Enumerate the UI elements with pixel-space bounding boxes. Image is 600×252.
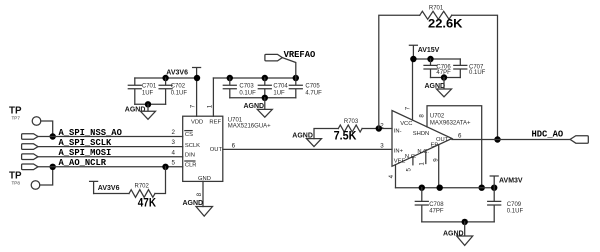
- svg-text:4: 4: [388, 174, 395, 178]
- svg-text:TP7: TP7: [12, 116, 21, 121]
- node junction TP7/NSS: [50, 133, 56, 139]
- svg-text:R702: R702: [135, 184, 150, 190]
- capacitor C701: [128, 78, 157, 104]
- node junction: [441, 74, 447, 80]
- port flag A_SPI_NSS_AO: [22, 134, 38, 140]
- node junction ground rail: [145, 101, 151, 107]
- svg-text:MAX5216GUA+: MAX5216GUA+: [228, 124, 271, 130]
- resistor R701 (feedback): [420, 6, 464, 31]
- svg-text:R703: R703: [344, 119, 359, 125]
- wire AV15V rail: [413, 58, 461, 60]
- svg-text:C705: C705: [305, 84, 320, 90]
- svg-text:VEE: VEE: [394, 159, 406, 165]
- wire C706/C707 ground rail: [431, 77, 461, 79]
- capacitor C706: [424, 59, 451, 78]
- svg-text:A_AO_NCLR: A_AO_NCLR: [59, 158, 107, 168]
- svg-text:8: 8: [418, 114, 425, 118]
- node junction ground rail C704: [262, 95, 268, 101]
- node junction C702/rail: [162, 75, 168, 81]
- pin 5 stub N.C.: [412, 157, 414, 165]
- power flag AV3V6 (upper): [166, 68, 200, 79]
- test point TP8: [9, 171, 40, 190]
- svg-text:U702: U702: [430, 114, 445, 120]
- ground AGND C706/C707: [425, 78, 452, 97]
- svg-text:VDD: VDD: [191, 120, 203, 126]
- capacitor C707: [454, 59, 486, 78]
- svg-text:U701: U701: [228, 118, 243, 124]
- wire feedback right: [452, 15, 498, 139]
- svg-text:7: 7: [190, 104, 197, 108]
- ground AGND C703-C705: [244, 98, 273, 117]
- svg-text:2: 2: [172, 129, 176, 136]
- test point TP7: [9, 106, 41, 126]
- wire AV3V6 to R702: [94, 193, 129, 195]
- wire VEE rail: [396, 187, 495, 189]
- capacitor C702: [159, 78, 187, 104]
- node junction C706: [427, 56, 433, 62]
- node junction output/feedback: [494, 136, 500, 142]
- svg-text:AV3V6: AV3V6: [98, 185, 120, 192]
- svg-text:0.1UF: 0.1UF: [507, 208, 524, 214]
- svg-text:C702: C702: [171, 84, 186, 90]
- wire TP7 to A_SPI_NSS_AO: [41, 121, 53, 137]
- port flag A_AO_NCLR: [22, 164, 38, 170]
- node junction NCLR/R702: [162, 164, 168, 170]
- wire feedback left: [379, 15, 420, 128]
- svg-text:VCC: VCC: [400, 121, 412, 127]
- svg-text:CS: CS: [185, 132, 193, 138]
- wire AGND to R703: [314, 129, 338, 139]
- svg-text:1: 1: [419, 162, 426, 166]
- pin 4 wire VEE: [395, 165, 397, 188]
- resistor R702: [129, 184, 157, 210]
- svg-text:C709: C709: [507, 202, 522, 208]
- svg-text:AV15V: AV15V: [418, 47, 440, 54]
- svg-text:AVM3V: AVM3V: [499, 178, 523, 185]
- wire R702 to NCLR: [155, 167, 166, 194]
- svg-text:AV3V6: AV3V6: [166, 70, 188, 77]
- svg-text:A_SPI_MOSI: A_SPI_MOSI: [59, 148, 112, 158]
- svg-text:47PF: 47PF: [429, 208, 444, 214]
- svg-text:6: 6: [458, 133, 462, 140]
- node junction AV3V6/VDD: [194, 75, 200, 81]
- svg-text:5: 5: [172, 159, 176, 166]
- node junction C703: [227, 75, 233, 81]
- port flag A_SPI_SCLK: [22, 144, 38, 150]
- svg-text:9: 9: [433, 158, 440, 162]
- op-amp U702 MAX9632ATA+: [392, 111, 452, 167]
- svg-text:C701: C701: [142, 84, 157, 90]
- svg-text:N.C.: N.C.: [405, 154, 417, 160]
- IC U701 MAX5216GUA+: [183, 116, 271, 182]
- wire C701/C702 ground rail: [135, 103, 166, 105]
- wire output to HDC_AO: [452, 139, 570, 141]
- port flag A_SPI_MOSI: [22, 154, 38, 160]
- svg-text:C703: C703: [239, 84, 254, 90]
- power flag AV3V6 (lower): [90, 181, 120, 193]
- svg-text:3: 3: [172, 139, 176, 146]
- svg-text:HDC_AO: HDC_AO: [532, 130, 564, 140]
- wire TP8 to A_AO_NCLR: [40, 167, 53, 185]
- svg-text:0.1UF: 0.1UF: [469, 70, 486, 76]
- svg-text:1UF: 1UF: [142, 90, 154, 96]
- svg-text:2: 2: [380, 123, 384, 130]
- pin 8 wire GND: [202, 181, 204, 206]
- svg-text:5: 5: [406, 168, 413, 172]
- pin 1 stub N.C.: [425, 151, 427, 164]
- label U702: [430, 114, 471, 127]
- node junction EP: [437, 185, 443, 191]
- svg-text:1: 1: [207, 104, 214, 108]
- wire VREFAO to rail: [282, 58, 296, 78]
- pin 1 wire REF: [212, 78, 214, 116]
- pin 7 wire VDD: [196, 78, 198, 116]
- svg-text:VREFAO: VREFAO: [284, 50, 316, 60]
- capacitor C703: [223, 78, 256, 98]
- svg-text:A_SPI_NSS_AO: A_SPI_NSS_AO: [59, 128, 122, 138]
- wire U701 OUT to IN+: [223, 148, 392, 150]
- svg-text:3: 3: [380, 142, 384, 149]
- node junction AV15V/pin7: [410, 56, 416, 62]
- node junction SHDN/VEE rail: [479, 185, 485, 191]
- svg-text:OUT: OUT: [210, 147, 223, 153]
- svg-text:R701: R701: [429, 6, 444, 12]
- svg-text:TP8: TP8: [12, 181, 21, 186]
- capacitor C704: [258, 78, 288, 98]
- svg-text:REF: REF: [209, 120, 221, 126]
- svg-text:SHDN: SHDN: [413, 131, 429, 137]
- svg-text:7.5K: 7.5K: [334, 131, 357, 143]
- wire A_SPI_MOSI: [38, 156, 183, 158]
- node junction ground: [462, 219, 468, 225]
- wire A_SPI_NSS_AO: [38, 136, 183, 138]
- wire AV3V6 rail: [135, 77, 197, 79]
- resistor R703: [334, 119, 363, 143]
- svg-text:GND: GND: [198, 176, 211, 182]
- port flag HDC_AO: [532, 130, 589, 144]
- pin 9 wire EP: [438, 145, 440, 188]
- svg-text:IN+: IN+: [394, 149, 404, 155]
- port flag VREFAO: [265, 50, 315, 61]
- ground AGND R703: [292, 132, 321, 146]
- wire A_SPI_SCLK: [38, 146, 183, 148]
- svg-text:N.C.: N.C.: [417, 149, 429, 155]
- ground AGND under U701: [183, 200, 213, 216]
- svg-text:C704: C704: [273, 84, 288, 90]
- svg-text:4.7UF: 4.7UF: [305, 90, 322, 96]
- wire R703 to IN-: [362, 128, 392, 130]
- svg-text:4: 4: [172, 149, 176, 156]
- svg-text:47K: 47K: [138, 197, 157, 209]
- node junction C708: [419, 185, 425, 191]
- wire REF rail: [213, 77, 295, 79]
- svg-text:22.6K: 22.6K: [428, 18, 463, 30]
- svg-text:1UF: 1UF: [273, 90, 285, 96]
- power flag AVM3V: [490, 176, 523, 188]
- svg-text:A_SPI_SCLK: A_SPI_SCLK: [59, 138, 113, 148]
- ground AGND C701/C702: [125, 104, 156, 119]
- svg-text:C708: C708: [429, 202, 444, 208]
- power flag AV15V: [409, 45, 439, 59]
- node junction AVM3V/C709: [491, 185, 497, 191]
- svg-text:0.1UF: 0.1UF: [171, 90, 188, 96]
- node junction C704: [262, 75, 268, 81]
- svg-text:8: 8: [196, 192, 203, 196]
- svg-text:DIN: DIN: [185, 153, 195, 159]
- node junction IN-/feedback: [376, 125, 382, 131]
- svg-text:SCLK: SCLK: [185, 143, 200, 149]
- svg-text:CLR: CLR: [185, 163, 197, 169]
- svg-text:IN-: IN-: [394, 129, 402, 135]
- wire C703-C705 ground rail: [230, 97, 296, 99]
- svg-text:OUT: OUT: [436, 137, 449, 143]
- svg-text:7: 7: [405, 106, 412, 110]
- svg-text:MAX9632ATA+: MAX9632ATA+: [430, 121, 471, 127]
- pin 8 wire SHDN detour: [427, 106, 482, 188]
- ground AGND C708/C709: [443, 222, 473, 246]
- capacitor C709: [488, 188, 524, 222]
- node junction TP8/NCLR: [50, 164, 56, 170]
- pin 7 wire VCC: [412, 59, 414, 120]
- svg-text:6: 6: [232, 143, 236, 150]
- wire A_AO_NCLR: [38, 166, 183, 168]
- capacitor C705: [289, 78, 322, 98]
- svg-text:0.1UF: 0.1UF: [239, 90, 256, 96]
- capacitor C708: [415, 188, 444, 222]
- node junction C705/VREFAO: [293, 75, 299, 81]
- wire C708/C709 ground rail: [422, 221, 494, 223]
